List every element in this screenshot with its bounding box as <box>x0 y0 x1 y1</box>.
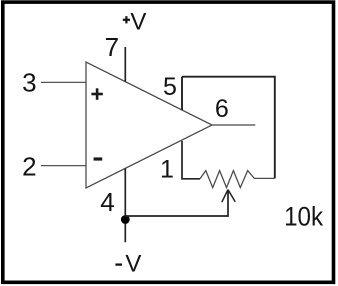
non-inverting input marker + <box>91 88 102 100</box>
svg-text:1: 1 <box>160 156 174 184</box>
wire pin4 -V supply <box>124 168 126 242</box>
svg-text:5: 5 <box>163 73 177 101</box>
svg-text:2: 2 <box>22 151 36 181</box>
svg-text:10k: 10k <box>284 201 323 231</box>
inverting input marker - <box>94 157 103 160</box>
wire pin6 output <box>212 124 255 126</box>
wire junction to wiper <box>125 190 228 216</box>
wire pin2 input <box>41 165 86 167</box>
wiper arrow <box>222 190 235 203</box>
svg-text:7: 7 <box>105 32 119 62</box>
net label +V <box>123 8 147 35</box>
svg-text:4: 4 <box>100 187 114 217</box>
svg-text:6: 6 <box>215 95 229 123</box>
potentiometer R1 zigzag <box>200 171 275 188</box>
wire pin3 input <box>41 81 86 83</box>
wire top and right of pot loop <box>182 77 275 179</box>
svg-text:V: V <box>125 251 141 278</box>
wire pin5 offset null <box>181 77 183 110</box>
op-amp U1 <box>86 62 212 188</box>
svg-text:V: V <box>130 8 146 35</box>
wire pin7 +V supply <box>124 47 126 82</box>
svg-text:3: 3 <box>22 67 36 97</box>
junction dot <box>121 215 130 224</box>
net label -V <box>115 251 141 278</box>
wire pin1 offset null <box>182 141 200 179</box>
